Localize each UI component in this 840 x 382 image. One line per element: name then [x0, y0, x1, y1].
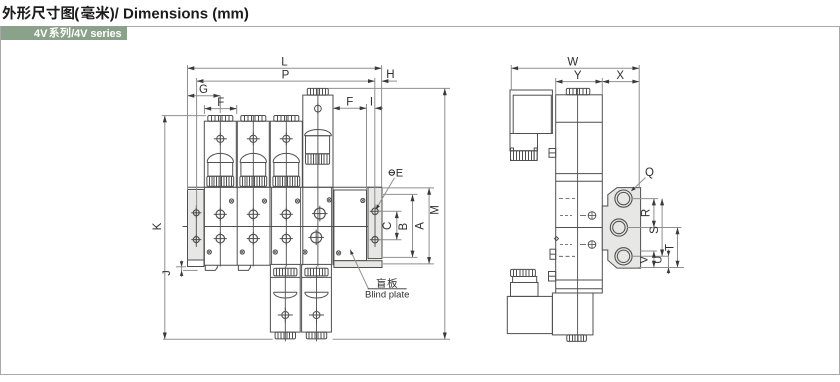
valve 4 label plate	[306, 136, 330, 154]
station 1 screw top-right	[229, 199, 233, 203]
dimension B	[412, 194, 414, 257]
port bracket (end plate side view)	[602, 188, 640, 269]
dimension S	[661, 199, 663, 257]
clip middle	[550, 249, 556, 259]
side view top connector	[566, 88, 590, 94]
top coil lower block	[510, 134, 538, 151]
blind plate screw bottom-left	[337, 251, 341, 255]
blind plate leader	[350, 250, 368, 289]
dimension U	[668, 250, 670, 275]
side view body	[556, 95, 603, 293]
svg-text:F: F	[346, 97, 353, 109]
svg-text:X: X	[616, 70, 624, 82]
lower valve 1 top connector	[274, 268, 297, 276]
S tick bottom	[632, 255, 669, 257]
valve 1 ribs	[207, 176, 234, 186]
svg-text:(: (	[74, 5, 79, 22]
svg-text:A: A	[415, 222, 427, 230]
station 4 port B	[311, 232, 322, 243]
svg-text:P: P	[282, 69, 290, 81]
valve 3 label plate	[274, 163, 299, 177]
station 3 port B	[282, 234, 291, 243]
lower valve edge lines through band	[271, 187, 273, 264]
svg-text:H: H	[386, 69, 394, 81]
valve 4 body (large)	[303, 95, 333, 187]
valve 1 label plate	[208, 163, 233, 177]
station 4 screw bottom-left	[303, 250, 307, 254]
valve 2 ribs	[240, 176, 267, 186]
valve 2 centerline	[252, 116, 254, 267]
series header bar 4V series	[1, 26, 127, 40]
bottom connector	[567, 335, 587, 342]
side view centerline	[577, 88, 579, 341]
top solenoid coil	[513, 95, 551, 133]
dimension I	[375, 107, 383, 109]
valve 3 top connector	[274, 116, 299, 122]
dimension A	[428, 188, 430, 264]
lower valve 1 body	[270, 264, 300, 332]
manifold foot band right	[334, 261, 382, 268]
C ticks	[379, 210, 402, 212]
side body internal lines	[556, 121, 603, 123]
svg-text:)/ Dimensions (mm): )/ Dimensions (mm)	[110, 5, 249, 22]
left end plate	[188, 191, 204, 261]
bottom solenoid coil	[507, 296, 552, 333]
lower valve 1 dome	[274, 292, 297, 298]
blind plate	[334, 190, 367, 261]
lower valve 2 dome	[305, 292, 328, 298]
A ticks	[383, 187, 434, 189]
station 4 port A	[314, 208, 325, 219]
dimension X	[602, 81, 639, 83]
dimension R	[653, 199, 655, 228]
dimension H	[382, 80, 397, 82]
svg-text:Y: Y	[574, 70, 582, 82]
valve 3 body	[270, 121, 302, 187]
bracket screw top	[588, 212, 596, 220]
dimension L	[188, 67, 382, 69]
top coil ribbed connector	[511, 151, 538, 161]
M bottom tick	[333, 338, 450, 340]
valve 3 screw	[283, 135, 290, 142]
valve 2 dome	[240, 153, 266, 162]
svg-text:R: R	[641, 209, 653, 217]
valve 1 body	[204, 121, 236, 187]
lower valve 2 port	[313, 312, 320, 319]
M top tick	[328, 87, 450, 89]
left end plate hole bottom	[193, 237, 199, 243]
dimension G	[188, 95, 221, 97]
svg-text:C: C	[382, 222, 394, 230]
station 2 screw bottom-left	[240, 250, 244, 254]
dimension P	[197, 80, 375, 82]
leader phi-E	[377, 178, 395, 209]
side extension lines	[510, 65, 512, 90]
station 3 screw top-right	[295, 199, 299, 203]
left end plate hole top	[193, 210, 199, 216]
top coil connector end tabs	[511, 148, 514, 161]
K bottom tick	[163, 338, 273, 340]
hidden port dashes in body	[559, 198, 575, 200]
bracket port top (Q)	[615, 190, 632, 207]
dimension Y	[556, 81, 603, 83]
lower valve 1 port	[282, 312, 289, 319]
K top tick	[162, 115, 206, 117]
valve 1 dome	[207, 153, 233, 162]
blind plate screw top-right	[361, 198, 365, 202]
valve 4 screw	[315, 105, 322, 112]
bottom coil upper block	[511, 283, 539, 297]
svg-text:G: G	[199, 84, 208, 96]
svg-text:I: I	[370, 97, 373, 109]
right end plate hole centerline	[374, 204, 376, 247]
svg-text:/4V series: /4V series	[71, 28, 121, 40]
dimension F valve4	[333, 107, 367, 109]
label phi-E	[389, 170, 394, 175]
station 1 screw bottom-left	[207, 250, 211, 254]
station 4 screw top-right	[327, 198, 331, 202]
page title 外形尺寸图(毫米)/ Dimensions (mm)	[2, 6, 16, 20]
valve 2 screw	[250, 135, 257, 142]
svg-text:T: T	[664, 244, 676, 251]
svg-text:K: K	[152, 222, 164, 230]
svg-text:W: W	[567, 57, 578, 69]
valve 1 screw	[217, 135, 224, 142]
dimension T	[677, 228, 679, 268]
left end plate hole centerline	[195, 205, 197, 247]
sub-base foot station 1	[205, 265, 217, 270]
svg-text:Q: Q	[645, 167, 654, 179]
bottom valve block	[552, 293, 593, 335]
svg-text:L: L	[281, 57, 288, 69]
manifold centerline	[183, 226, 373, 228]
valve 2 top connector	[241, 116, 266, 122]
right end plate	[368, 188, 382, 259]
lower valve 1 centerline	[284, 267, 286, 342]
svg-text:U: U	[653, 256, 665, 264]
lower valve 2 body	[302, 264, 332, 332]
extension lines (front view)	[187, 65, 189, 190]
bottom solenoid ribbed connector	[511, 269, 536, 276]
valve 3 dome	[273, 153, 299, 162]
valve 3 centerline	[285, 116, 287, 267]
clip upper	[549, 149, 556, 158]
V top tick	[641, 250, 657, 252]
station 3 screw bottom-left	[273, 250, 277, 254]
dimension V	[653, 251, 655, 268]
sub-base foot station 2	[238, 265, 250, 270]
right end plate hole bottom	[372, 237, 378, 243]
station 2 port A	[249, 210, 258, 219]
valve 4 top connector	[307, 88, 328, 95]
bracket port middle	[610, 219, 627, 236]
clip lower	[549, 272, 556, 282]
sub-base station separators	[203, 187, 205, 265]
svg-text:M: M	[430, 205, 442, 215]
valve 4 centerline	[317, 88, 319, 266]
manifold bar top edge	[188, 186, 383, 188]
bracket screw bottom	[588, 241, 596, 249]
valve 1 top connector	[208, 116, 233, 122]
svg-text:B: B	[398, 223, 410, 231]
lower valve 2 bottom connector	[306, 332, 326, 339]
sub-base bottom edge	[204, 264, 270, 266]
svg-text:E: E	[396, 168, 403, 180]
valve 1 centerline	[219, 116, 221, 267]
station 3 port A	[282, 210, 291, 219]
svg-text:S: S	[649, 226, 661, 234]
blind plate label	[377, 278, 386, 288]
R ticks	[632, 198, 658, 200]
dimension J	[176, 266, 186, 268]
lower valve 1 bottom connector	[275, 332, 295, 339]
top solenoid coil cover	[510, 90, 552, 134]
bottom coil cap	[513, 277, 537, 283]
right end plate hole top (E)	[372, 208, 378, 214]
lower valve 2 centerline	[316, 267, 318, 342]
left lower reference line (J)	[183, 269, 198, 271]
valve 2 label plate	[241, 163, 266, 177]
valve 4 dome	[305, 130, 332, 136]
svg-text:F: F	[217, 97, 224, 109]
body side diamond mark	[555, 237, 559, 241]
station 2 screw top-right	[262, 199, 266, 203]
dimension C	[396, 211, 398, 239]
dimension K	[164, 116, 166, 340]
station 2 port B	[249, 234, 258, 243]
svg-text:4V: 4V	[34, 28, 48, 40]
valve 2 body	[237, 121, 269, 187]
valve 3 ribs	[273, 176, 300, 186]
bottom reference tick	[638, 267, 684, 269]
svg-text:J: J	[161, 270, 173, 276]
lower valve 2 top connector	[305, 268, 328, 276]
dimension W	[511, 67, 639, 69]
station 1 port A	[216, 210, 225, 219]
B ticks	[383, 193, 418, 195]
svg-text:V: V	[639, 255, 651, 263]
dimension F valve1	[204, 108, 236, 110]
leader Q	[632, 178, 646, 191]
valve 4 ribs	[306, 154, 330, 165]
svg-text:Blind plate: Blind plate	[365, 289, 409, 300]
station 1 port B	[216, 234, 225, 243]
dimension M	[444, 88, 446, 339]
bracket port bottom	[615, 248, 632, 265]
